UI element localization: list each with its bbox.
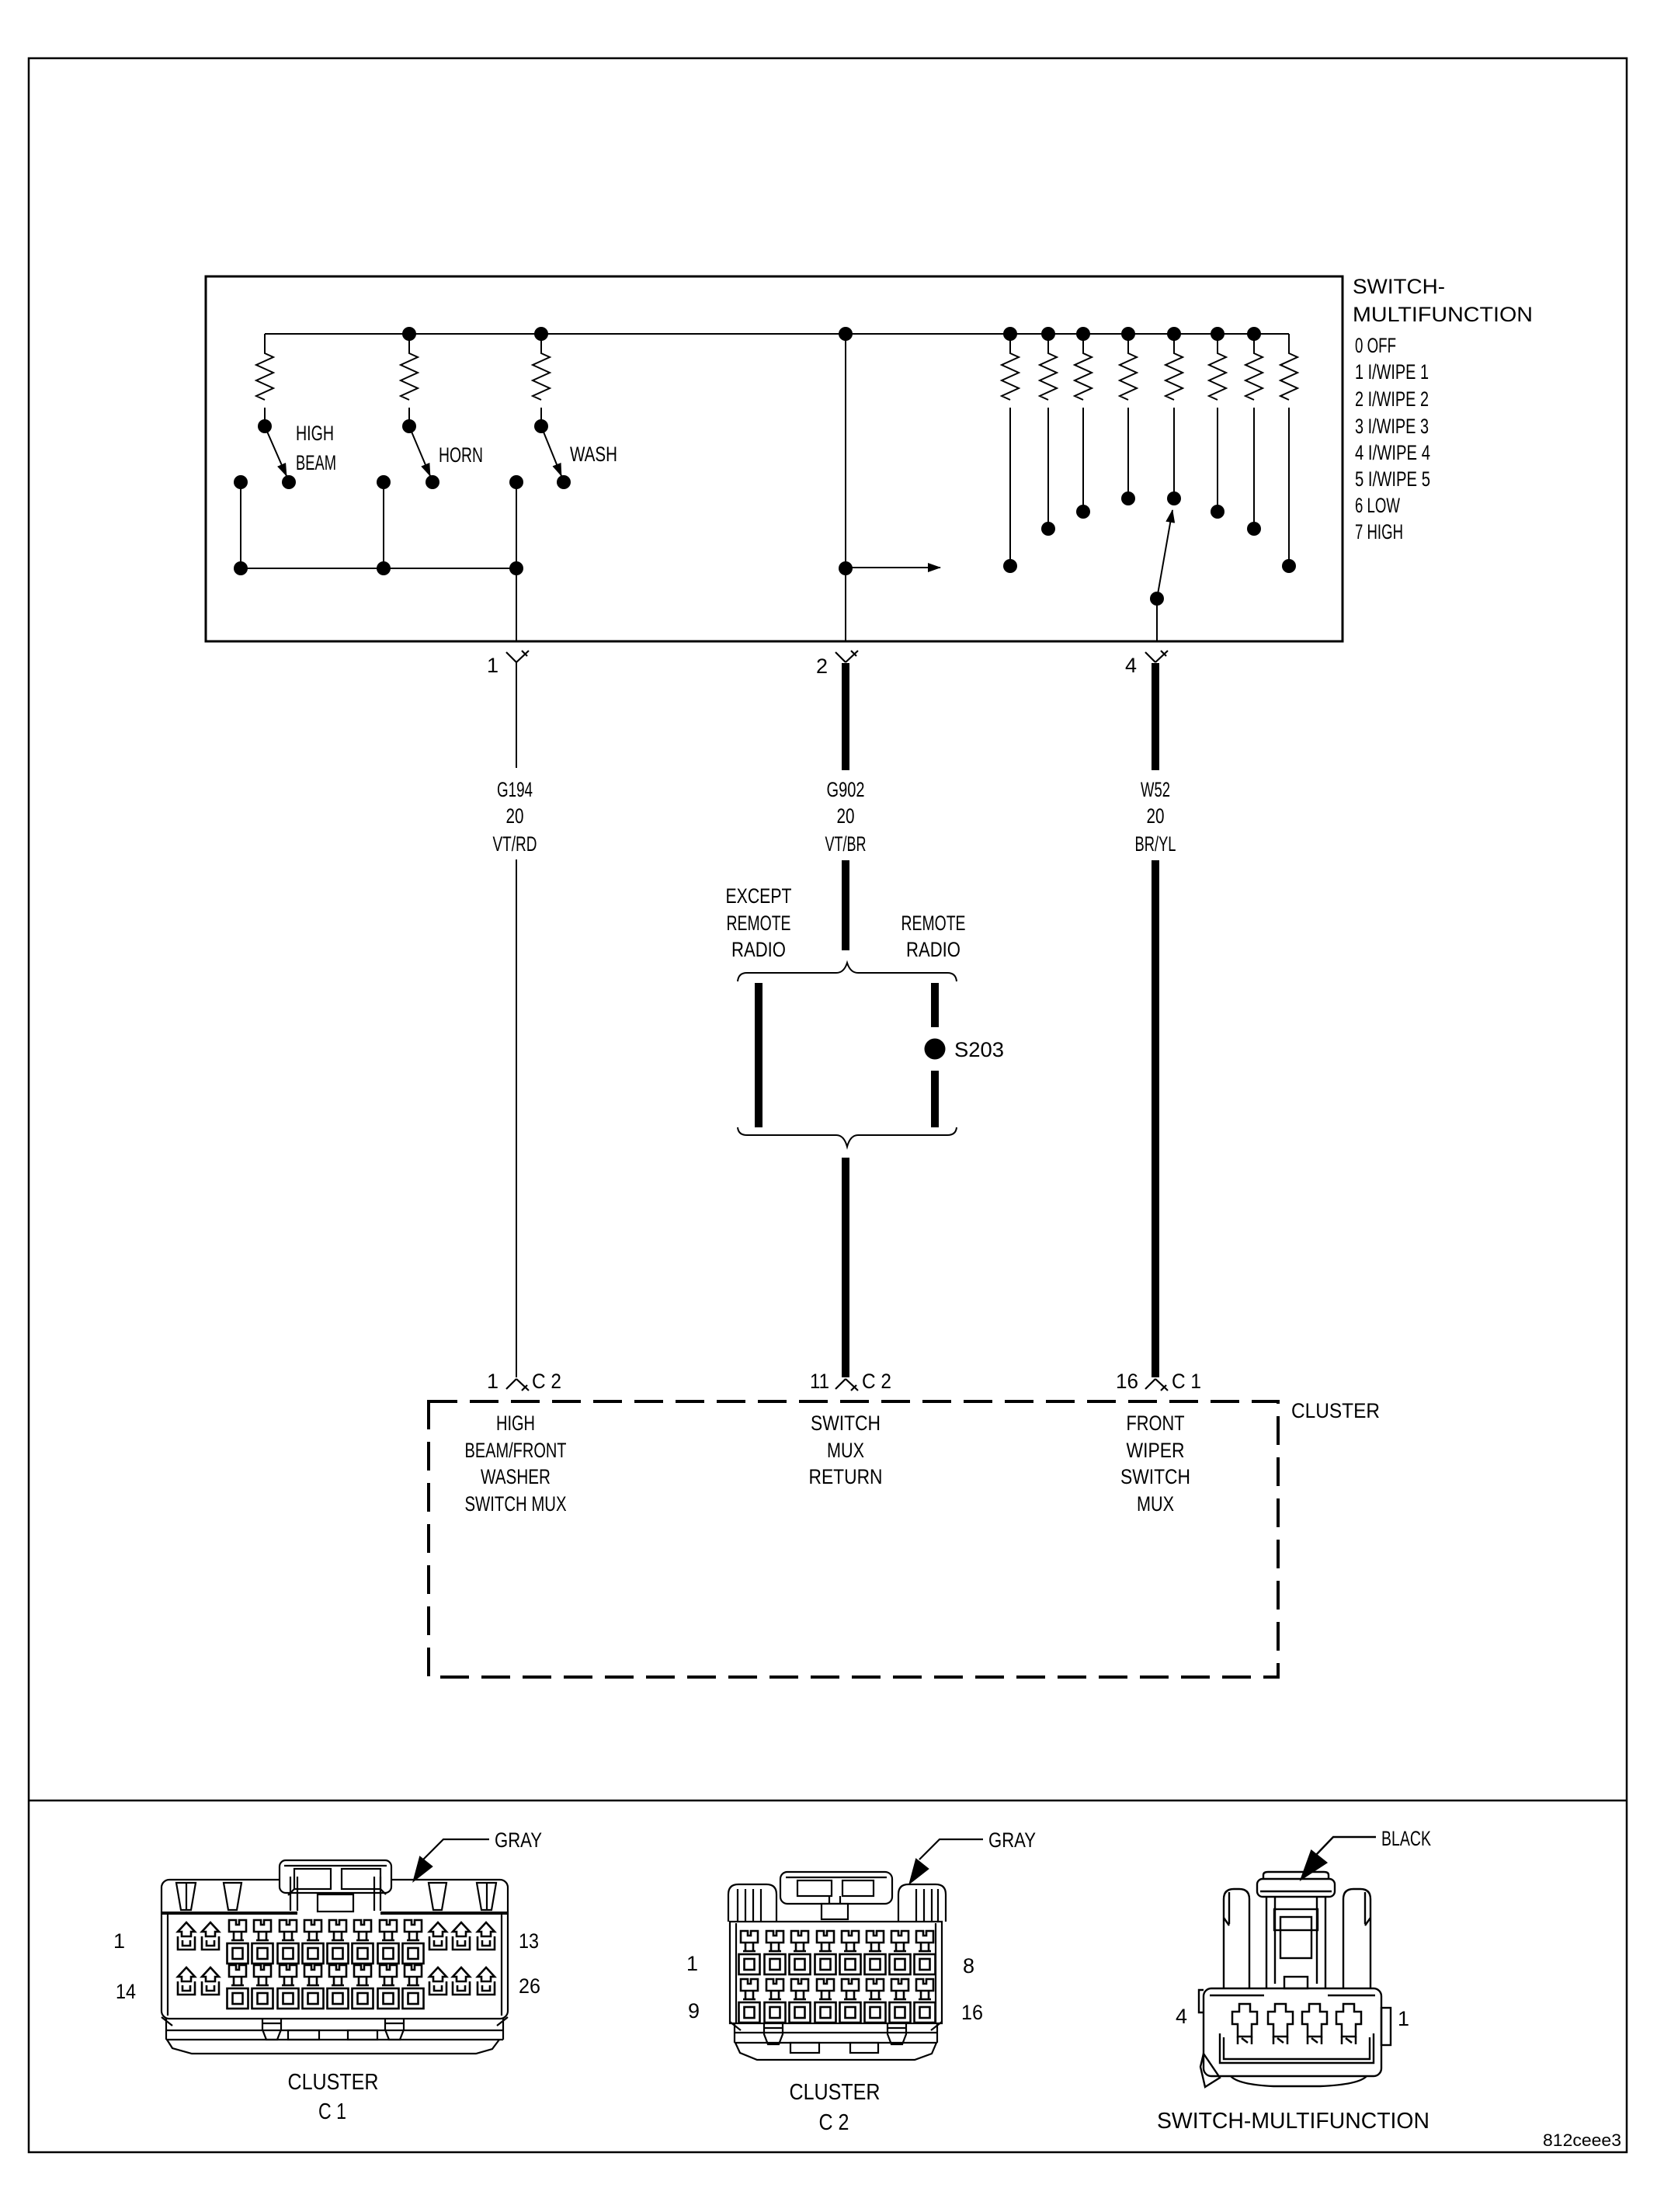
svg-text:MULTIFUNCTION: MULTIFUNCTION [1353,303,1533,326]
band trapezoid 4 [477,1883,496,1910]
svg-text:20: 20 [506,804,524,828]
resistor bottom dots left [258,419,272,433]
tab inner left block [294,1869,331,1889]
handle center hanger [829,1896,840,1904]
svg-text:G902: G902 [827,778,865,801]
SM left tower [1224,1889,1249,1989]
svg-text:1: 1 [487,1370,498,1393]
svg-text:812ceee3: 812ceee3 [1543,2130,1621,2150]
wire G194 upper (thin) [516,662,517,768]
band trapezoid 1 [176,1883,196,1910]
C2 lower skirt [735,2043,936,2060]
resistor pos7 [1280,334,1297,400]
switch contact dots row [234,475,248,489]
svg-text:RADIO: RADIO [731,938,786,961]
C1 bottom skirt band [166,2019,503,2040]
C1 lower skirt [167,2040,499,2054]
wire G902 lower (thick) [842,1158,849,1377]
contact drop wires [241,482,516,568]
svg-text:BEAM/FRONT: BEAM/FRONT [465,1439,567,1462]
tab center bottom block [318,1894,353,1912]
svg-text:SWITCH-: SWITCH- [1353,275,1445,298]
svg-text:GRAY: GRAY [988,1828,1036,1852]
SM pin 4 (castle) [1232,2004,1257,2044]
svg-text:MUX: MUX [827,1439,864,1462]
svg-text:2: 2 [816,655,828,678]
svg-text:S203: S203 [954,1038,1004,1061]
brace upper [738,963,957,981]
C1 skirt window right [348,2030,377,2040]
svg-text:C 1: C 1 [1172,1370,1201,1393]
wire G902 upper (thick) [842,663,849,770]
C1 pin 15 (arrow) [202,1967,219,1995]
svg-text:26: 26 [519,1974,540,1998]
svg-text:9: 9 [688,1999,700,2023]
svg-text:VT/BR: VT/BR [825,832,867,856]
C1 pin 1 (arrow) [178,1922,195,1950]
C2 latch right [888,2024,906,2044]
wire G902 middle (thick) [842,860,849,950]
SM left bump [1199,1990,1204,2012]
C2 right ear [898,1884,946,1922]
svg-text:C 2: C 2 [862,1370,891,1393]
C2 skirt window left [790,2043,819,2053]
resistor pos1 [1040,334,1057,400]
branch wire remote-radio upper (thick) [931,983,939,1027]
C1 skirt corner bevels [162,2017,508,2026]
wire bus (top common) [265,333,1289,335]
cluster pin 1 C2 symbol [506,1379,529,1391]
C1 latch right [385,2019,404,2040]
resistor pos6 [1245,334,1263,400]
svg-text:3 I/WIPE 3: 3 I/WIPE 3 [1355,415,1429,438]
svg-text:WASH: WASH [570,443,617,466]
svg-text:4: 4 [1125,654,1137,677]
pin2 wire [845,334,846,641]
resistor pos3 [1120,334,1137,400]
cluster box dashed outline [429,1401,1278,1677]
svg-text:G194: G194 [497,778,533,801]
SM left flap [1200,2054,1220,2087]
SM column inner block [1280,1917,1311,1958]
C2 skirt corner bevels [730,2022,942,2030]
switch arm horn [409,426,430,476]
svg-text:1 I/WIPE 1: 1 I/WIPE 1 [1355,360,1429,384]
svg-text:16: 16 [961,2001,983,2024]
svg-text:SWITCH: SWITCH [1120,1465,1190,1488]
svg-text:20: 20 [1147,804,1165,828]
BLACK leader line (SM) [1315,1837,1376,1856]
handle bottom block [822,1904,848,1919]
cluster pin 11 C2 symbol [835,1379,858,1391]
C2 body inner side lines [736,1923,936,2023]
C1 pin 25 (arrow) [453,1967,470,1995]
C1 pin 13 (arrow) [478,1922,495,1950]
C1 pin 2 (arrow) [202,1922,219,1950]
svg-text:BLACK: BLACK [1381,1827,1431,1850]
svg-text:1: 1 [1398,2007,1409,2030]
SM pin 1 (castle) [1336,2004,1361,2044]
resistor horn [401,334,418,400]
C1 pin 11 (arrow) [429,1922,446,1950]
svg-text:RADIO: RADIO [906,938,961,961]
connector C2 body outline [730,1922,942,2023]
svg-text:MUX: MUX [1137,1492,1174,1516]
svg-text:FRONT: FRONT [1127,1412,1185,1435]
wire W52 upper (thick) [1152,663,1159,770]
svg-text:CLUSTER: CLUSTER [790,2080,881,2105]
pin 1 connector symbol [506,651,529,662]
resistor high-beam [256,334,273,400]
branch wire except-remote-radio (thick) [755,983,762,1127]
C1 top band line [162,1912,508,1915]
SM center column [1266,1897,1325,1988]
svg-text:16: 16 [1116,1370,1138,1393]
C2 bottom skirt band [735,2023,937,2043]
resistor wash [533,334,550,400]
svg-text:C 1: C 1 [318,2099,346,2124]
svg-text:SWITCH: SWITCH [811,1412,881,1435]
svg-text:14: 14 [116,1980,136,2003]
svg-text:C 2: C 2 [532,1370,561,1393]
svg-text:8: 8 [963,1954,974,1978]
C2 pins row 1 [739,1931,760,1974]
C1 pins 16-23 (T row 2) [228,1965,248,2009]
C2 top handle [780,1872,892,1904]
splice S203 [925,1039,946,1060]
GRAY leader line (C2) [919,1839,983,1860]
tab center hanger bars [290,1877,380,1911]
svg-text:BR/YL: BR/YL [1135,832,1176,856]
svg-text:4: 4 [1176,2005,1187,2028]
C1 skirt window left [288,2030,319,2040]
band trapezoid 3 [429,1883,446,1910]
C2 pins row 2 [739,1979,760,2023]
handle inner right block [842,1880,874,1896]
SM right tab [1381,2008,1391,2045]
svg-text:WASHER: WASHER [481,1465,551,1488]
C1 pin 14 (arrow) [178,1967,195,1995]
wire G194 lower (thin) [516,859,517,1377]
svg-text:SWITCH MUX: SWITCH MUX [465,1492,567,1516]
C2 skirt window right [850,2043,878,2053]
switch arm wash [541,426,561,476]
SM top cap [1257,1879,1335,1897]
resistor pos5 [1209,334,1226,400]
SM body inner top line [1210,1995,1375,1996]
C1 pin 12 (arrow) [453,1922,470,1950]
svg-text:BEAM: BEAM [296,451,336,474]
svg-text:2 I/WIPE 2: 2 I/WIPE 2 [1355,387,1429,411]
pin2 wiper arrow [846,567,940,568]
svg-text:13: 13 [519,1929,539,1953]
resistor pos0 [1002,334,1019,400]
wire W52 lower (thick) [1152,860,1159,1377]
bus junction dots [402,327,416,341]
svg-text:20: 20 [837,804,855,828]
GRAY leader line (C1) [423,1839,489,1860]
GRAY arrowhead (C1) [414,1857,432,1880]
svg-text:HIGH: HIGH [296,422,334,445]
svg-text:7 HIGH: 7 HIGH [1355,520,1403,543]
BLACK arrowhead (SM) [1301,1851,1326,1879]
svg-text:5 I/WIPE 5: 5 I/WIPE 5 [1355,467,1430,491]
SM bottom lip [1231,2076,1367,2086]
C1 latch left [262,2019,281,2040]
SM pin 2 (castle) [1302,2004,1327,2044]
svg-text:RETURN: RETURN [809,1465,883,1488]
switch arm wiper rotary [1157,510,1172,599]
GRAY arrowhead (C2) [910,1860,928,1883]
svg-text:CLUSTER: CLUSTER [288,2070,379,2095]
svg-text:1: 1 [113,1929,125,1953]
svg-text:REMOTE: REMOTE [901,912,966,935]
SM column upper block [1274,1909,1318,1930]
pin1 drop wire [516,568,517,641]
switch-multifunction box outline [206,276,1343,641]
brace lower [738,1127,957,1147]
cluster pin 16 C1 symbol [1145,1379,1168,1391]
SM pin 3 (castle) [1268,2004,1293,2044]
resistor pos2 [1075,334,1092,400]
pin 2 connector symbol [835,651,858,662]
C1 pins 3-10 (T row 1) [228,1920,248,1964]
svg-text:C 2: C 2 [819,2110,849,2135]
connector C1 body outline [162,1880,508,2019]
SM right tower [1343,1889,1370,1989]
handle inner left block [797,1880,832,1896]
SM main body [1204,1988,1381,2076]
rotary arm base dot [1150,592,1164,606]
svg-text:11: 11 [810,1370,829,1393]
C1 pin 26 (arrow) [478,1967,495,1995]
SM column lower block [1284,1977,1308,1988]
band trapezoid 2 [224,1883,241,1910]
resistor pos4 [1165,334,1183,400]
svg-text:0 OFF: 0 OFF [1355,334,1396,357]
C2 latch left [764,2024,783,2044]
branch wire remote-radio lower (thick) [931,1071,939,1127]
svg-text:REMOTE: REMOTE [727,912,791,935]
svg-text:VT/RD: VT/RD [493,832,537,856]
bottom tie dots [234,561,248,575]
svg-text:EXCEPT: EXCEPT [726,884,792,908]
switch arm high beam [265,426,287,476]
connector C1 top tab [280,1860,391,1893]
svg-text:WIPER: WIPER [1127,1439,1185,1462]
tab inner right block [342,1869,380,1889]
SM inner tray [1220,2033,1374,2063]
svg-text:HIGH: HIGH [496,1412,535,1435]
C2 left ear [728,1884,776,1922]
svg-text:W52: W52 [1141,778,1170,801]
svg-text:4 I/WIPE 4: 4 I/WIPE 4 [1355,441,1430,464]
svg-text:CLUSTER: CLUSTER [1291,1399,1380,1422]
bottom tie wire [241,568,516,569]
svg-text:6 LOW: 6 LOW [1355,494,1400,517]
pin 4 connector symbol [1145,651,1168,662]
rotary bank dots [1003,559,1017,573]
svg-text:GRAY: GRAY [495,1828,542,1852]
C1 pin 24 (arrow) [429,1967,446,1995]
svg-text:1: 1 [686,1952,698,1975]
C1 body inner side lines [168,1915,502,2016]
svg-text:HORN: HORN [439,443,483,467]
section divider line [29,1800,1627,1802]
svg-text:SWITCH-MULTIFUNCTION: SWITCH-MULTIFUNCTION [1157,2109,1429,2134]
svg-text:1: 1 [487,654,498,677]
pin4 drop wire [1156,599,1158,641]
